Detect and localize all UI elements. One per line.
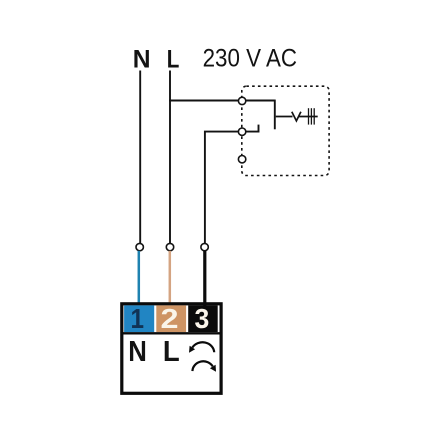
svg-text:L: L xyxy=(163,336,180,368)
svg-text:230 V AC: 230 V AC xyxy=(203,45,298,73)
svg-text:L: L xyxy=(167,45,180,73)
svg-text:3: 3 xyxy=(195,303,210,334)
svg-text:N: N xyxy=(128,336,147,368)
svg-text:1: 1 xyxy=(131,303,145,334)
svg-text:N: N xyxy=(133,45,151,73)
svg-text:2: 2 xyxy=(161,303,179,334)
